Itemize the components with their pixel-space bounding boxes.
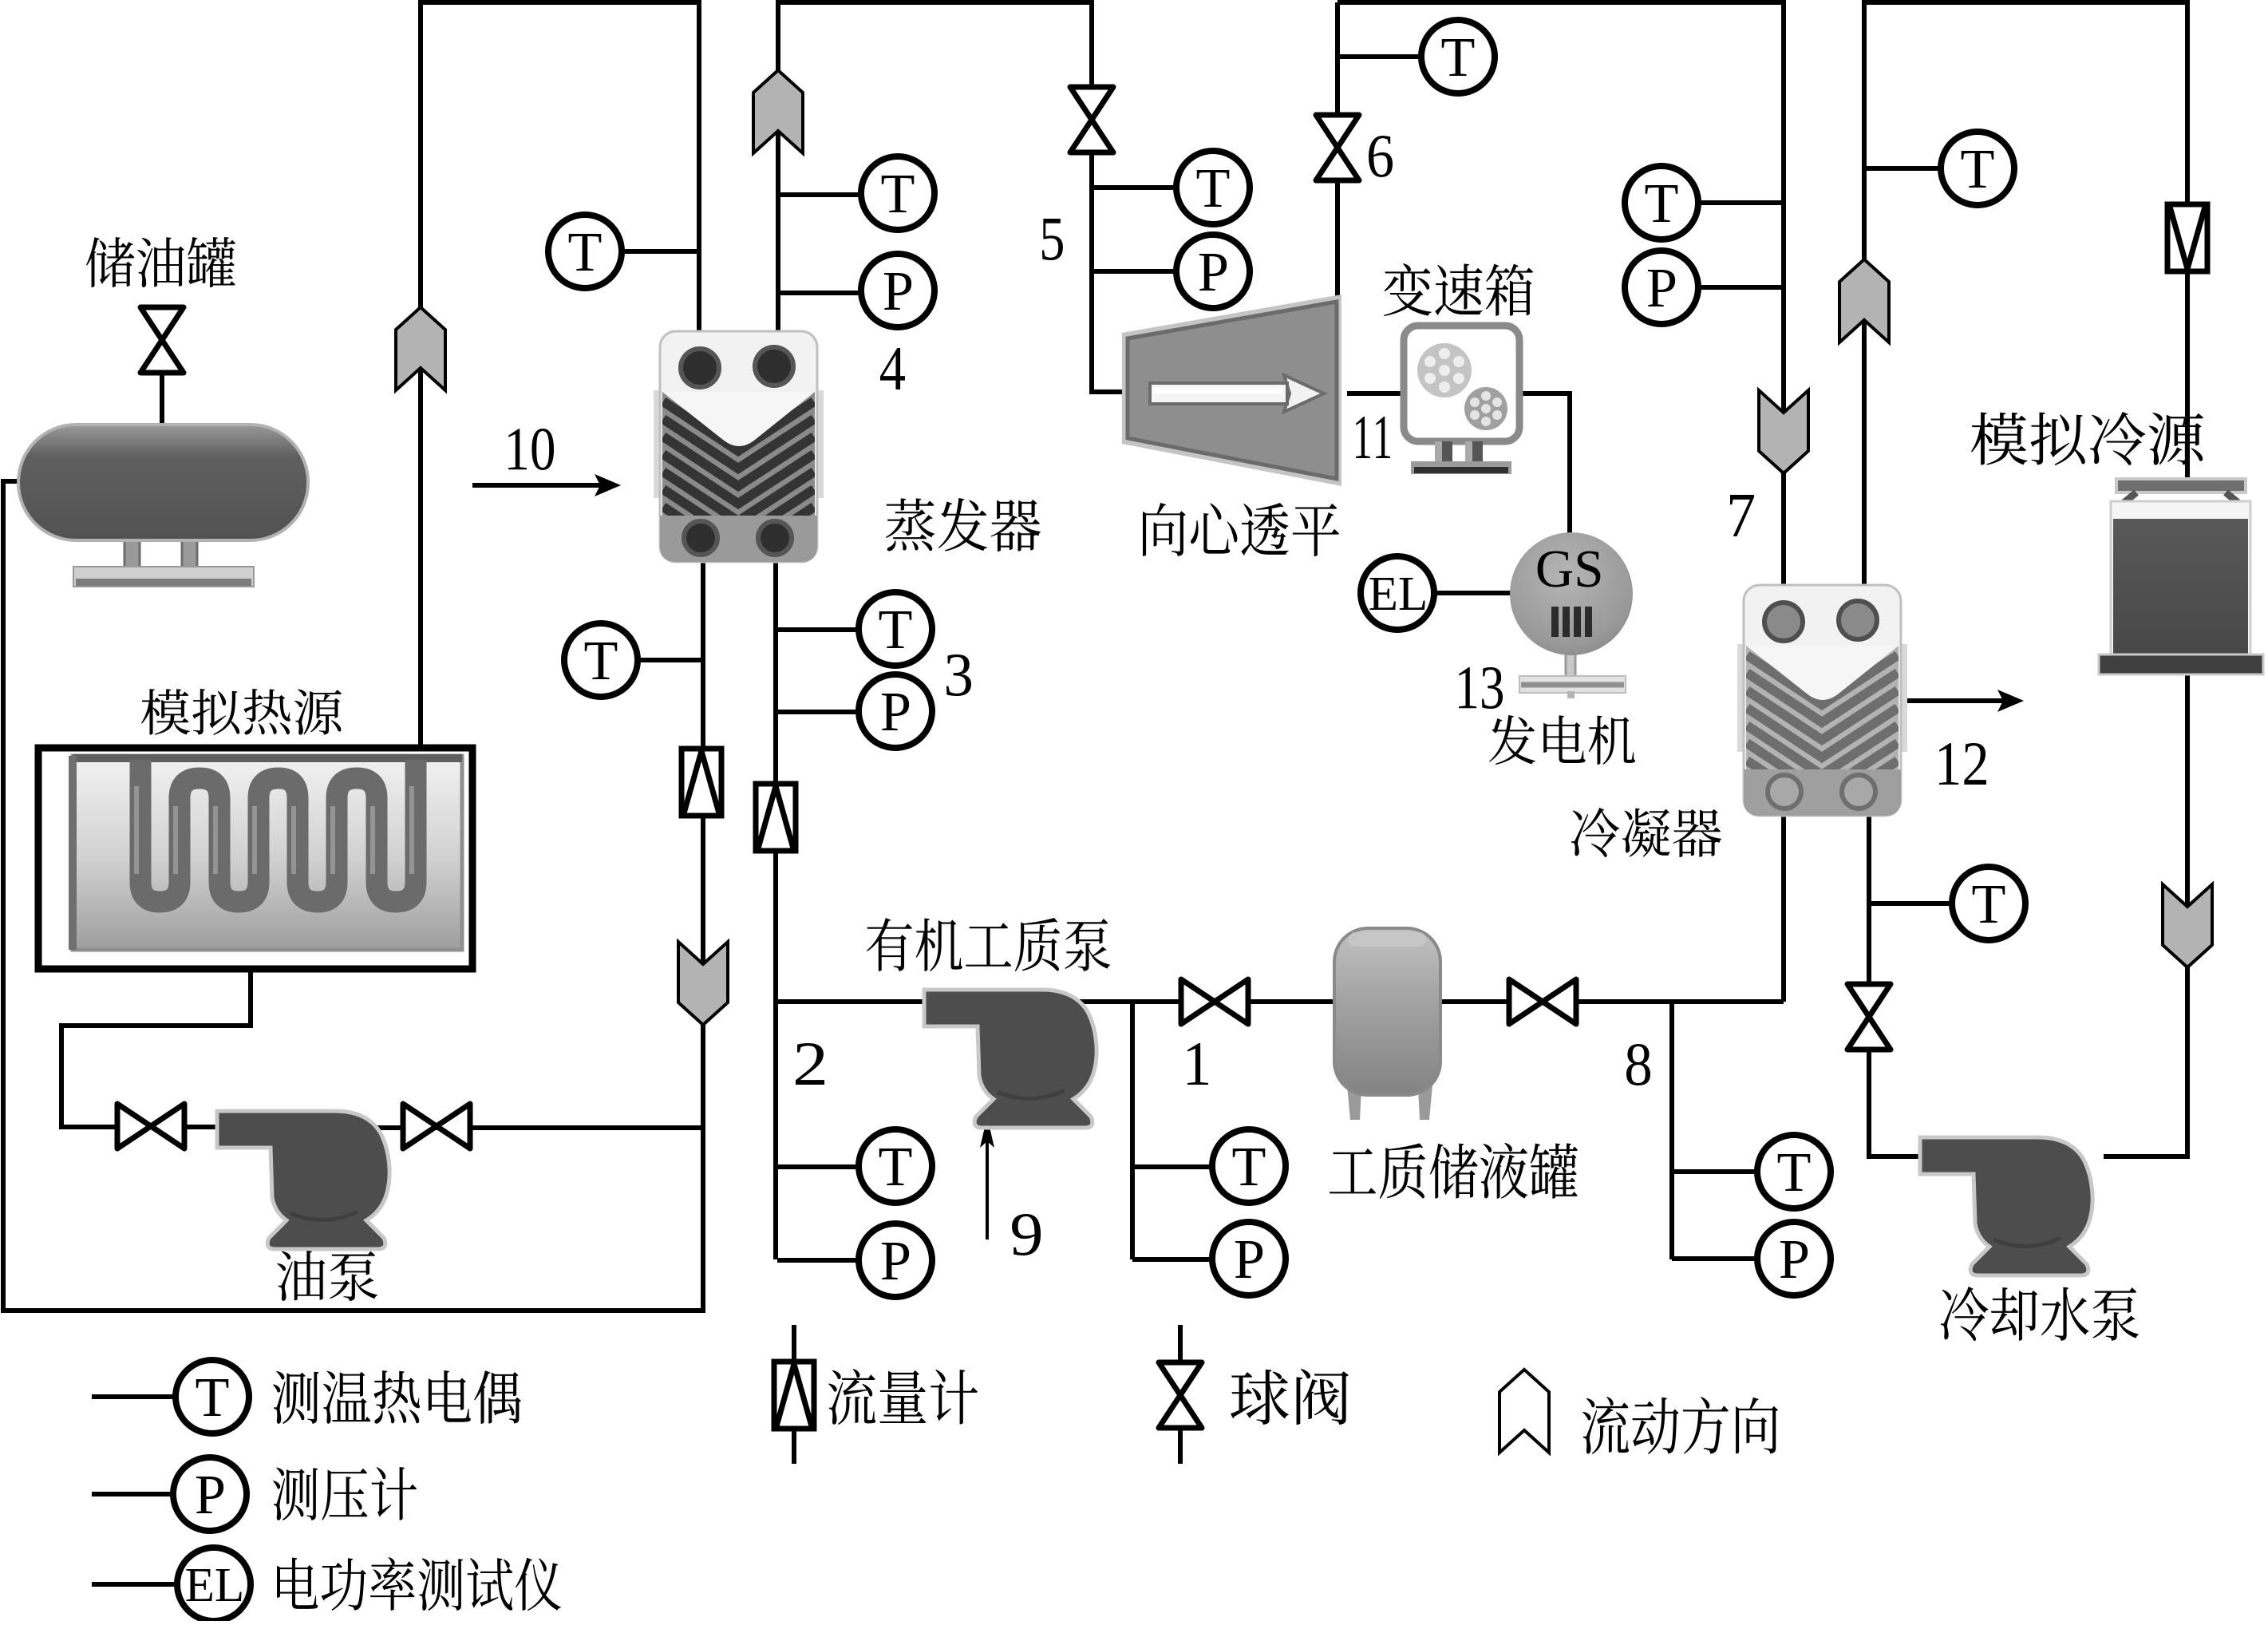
- thermocouple oil supply: [548, 215, 622, 288]
- wire legend EL: [92, 1582, 177, 1587]
- wire node 1 drop: [1130, 1002, 1135, 1259]
- legend flow meter symbol: [774, 1362, 814, 1429]
- node 11: [1356, 417, 1390, 458]
- label condenser: [1571, 808, 1721, 857]
- thermocouple cooling water out: [1941, 132, 2014, 205]
- pump working fluid: [924, 990, 1096, 1128]
- pressure gauge 4: [861, 254, 934, 327]
- pump cooling water: [1920, 1137, 2092, 1275]
- arrow condenser water outlet (12): [1899, 690, 2024, 712]
- node 13: [1459, 667, 1503, 709]
- node 2: [796, 1043, 824, 1085]
- flow meter working fluid line: [756, 784, 796, 851]
- evap: [654, 331, 824, 562]
- wire valve to turbine inlet: [1092, 152, 1129, 392]
- node 9: [1012, 1214, 1041, 1255]
- thermocouple cooling water in: [1952, 867, 2025, 940]
- node 8: [1626, 1044, 1650, 1085]
- working fluid reservoir tank: [1334, 928, 1440, 1120]
- wire branch to P1: [1132, 1257, 1211, 1262]
- flow arrow oil supply up: [396, 307, 445, 390]
- wire branch to T1: [1132, 1164, 1211, 1169]
- label legend ball valve: [1231, 1369, 1349, 1425]
- flow meter oil line: [682, 749, 721, 816]
- valve oil pump inlet: [117, 1104, 184, 1149]
- valve turbine bypass top: [1070, 87, 1113, 152]
- valve condenser to reservoir: [1509, 979, 1576, 1024]
- label gearbox: [1384, 263, 1533, 316]
- label legend thermocouple: [273, 1370, 521, 1424]
- cond: [1737, 585, 1907, 816]
- arrow pump input (9): [980, 1117, 994, 1240]
- node 4: [880, 348, 905, 389]
- label legend flow meter: [828, 1369, 978, 1425]
- valve oil tank vent: [140, 307, 184, 373]
- thermocouple 5: [1176, 151, 1250, 224]
- arrow label 10 flow direction: [472, 474, 621, 496]
- pressure gauge 2: [859, 1224, 932, 1297]
- label working fluid reservoir: [1330, 1143, 1578, 1199]
- wire branch to T6: [1337, 54, 1421, 59]
- wire branch to P2: [777, 1258, 858, 1263]
- flow arrow cold source down: [2163, 884, 2212, 967]
- legend pressure gauge symbol: [173, 1457, 247, 1531]
- wire flowmeter to cold tank: [2185, 268, 2190, 482]
- label radial turbine: [1143, 503, 1339, 556]
- node 6: [1369, 136, 1393, 177]
- wire node 8 drop: [1669, 1002, 1674, 1259]
- valve oil pump outlet: [403, 1104, 470, 1149]
- wire main line node2 to working fluid pump: [776, 999, 927, 1004]
- label oil storage tank: [86, 237, 235, 287]
- wire valve 6 to turbine top: [1335, 180, 1340, 302]
- wire legend T: [92, 1394, 176, 1399]
- wire branch to P8: [1672, 1256, 1756, 1261]
- wire cold tank bottom to cooling pump right: [2104, 674, 2187, 1156]
- wire condenser water out up over to cold source: [1864, 2, 2187, 585]
- label legend flow direction: [1582, 1397, 1778, 1454]
- wire legend flowmeter stem: [792, 1325, 796, 1464]
- node 7: [1730, 495, 1754, 536]
- wire EL to generator: [1434, 591, 1514, 595]
- wire branch to T12: [1869, 901, 1952, 906]
- wire branch to T4: [778, 192, 860, 197]
- simulated heat source box: [38, 748, 472, 969]
- wire branch to T2: [777, 1164, 858, 1169]
- wire branch to P3: [776, 710, 858, 714]
- thermocouple oil return: [564, 623, 638, 697]
- wire heater bottom to oil pump valve: [61, 969, 251, 1127]
- label legend pressure gauge: [273, 1467, 417, 1520]
- thermocouple 4: [861, 156, 934, 230]
- node 10: [508, 429, 554, 470]
- node 3: [946, 654, 971, 696]
- wire branch to T3: [776, 627, 858, 632]
- wire branch to T7: [1699, 200, 1784, 205]
- wire evaporator right pipe down to node 2: [773, 559, 778, 1259]
- wire oil return: evaporator bottom-left to bottom line to oil tank: [3, 481, 703, 1311]
- thermocouple 3: [859, 592, 932, 666]
- wire oil valve to oil pump: [182, 1125, 219, 1129]
- wire legend ball valve stem: [1178, 1325, 1183, 1464]
- node 12: [1939, 743, 1986, 785]
- label cooling water pump: [1941, 1287, 2139, 1341]
- thermocouple 2: [859, 1129, 932, 1203]
- flow arrow cooling water up: [1839, 259, 1889, 342]
- label simulated heat source: [141, 689, 342, 735]
- wire evaporator outlet to valve top: [778, 2, 1092, 335]
- flow arrow evaporator outlet up: [753, 70, 803, 153]
- radial turbine: [1122, 295, 1341, 486]
- pressure gauge 7: [1625, 251, 1698, 324]
- wire branch to T oil return: [638, 658, 703, 662]
- legend flow direction symbol: [1499, 1370, 1549, 1453]
- pump oil: [217, 1111, 389, 1249]
- pressure gauge 1: [1212, 1222, 1286, 1295]
- node 1: [1187, 1043, 1208, 1085]
- wire branch to T8: [1672, 1169, 1756, 1174]
- valve cooling pump suction: [1847, 984, 1891, 1050]
- node 5: [1042, 219, 1063, 260]
- pressure gauge 8: [1757, 1222, 1831, 1295]
- wire valve to cooling pump left: [1869, 1045, 1925, 1156]
- flow arrow oil return down: [678, 942, 728, 1025]
- flow meter cooling water: [2167, 204, 2207, 271]
- valve 6 turbine outlet: [1316, 115, 1359, 180]
- thermocouple turbine outlet: [1421, 20, 1495, 93]
- flow arrow condenser inlet down: [1759, 390, 1808, 473]
- thermocouple 7: [1625, 166, 1698, 239]
- power meter EL: [1361, 556, 1434, 630]
- wire oil pump to return pipe tee: [367, 1125, 703, 1130]
- simulated cold source tank: [2099, 479, 2263, 674]
- thermocouple 1: [1212, 1129, 1286, 1203]
- wire top line to condenser inlet: [1337, 2, 1784, 585]
- label generator: [1489, 715, 1635, 765]
- generator GS: [1510, 532, 1633, 698]
- wire condenser bottom-left downcomer: [1781, 816, 1786, 1002]
- thermocouple 8: [1757, 1135, 1831, 1208]
- legend thermocouple symbol: [176, 1360, 249, 1433]
- pressure gauge 5: [1176, 235, 1250, 308]
- wire oil tank vent stub: [160, 372, 164, 427]
- wire branch to P4: [778, 291, 860, 295]
- wire branch to T oil supply: [622, 249, 699, 254]
- wire turbine to gearbox: [1347, 391, 1406, 396]
- label legend power meter: [277, 1557, 561, 1611]
- legend power meter symbol: [177, 1548, 251, 1621]
- wire turbine outlet riser upper: [1335, 2, 1340, 116]
- wire condenser bottom-right to valve: [1867, 816, 1871, 989]
- wire branch to P5: [1092, 269, 1175, 274]
- oil storage tank: [18, 425, 308, 587]
- label simulated cold source: [1971, 412, 2203, 465]
- legend ball valve symbol: [1159, 1362, 1202, 1428]
- wire working fluid pump to condenser downcomer: [1079, 999, 1784, 1004]
- wire oil supply: heater top to evaporator top-left: [421, 2, 699, 746]
- wire branch to P7: [1699, 285, 1784, 290]
- label organic working fluid pump: [867, 918, 1110, 971]
- wire branch to T mid: [1864, 166, 1941, 171]
- label evaporator: [886, 498, 1041, 552]
- gearbox: [1404, 326, 1519, 474]
- wire gearbox to generator: [1518, 393, 1570, 536]
- label oil pump: [277, 1251, 377, 1301]
- valve 1 pump discharge: [1181, 979, 1248, 1024]
- wire branch to T5: [1092, 185, 1175, 190]
- wire legend P: [92, 1492, 173, 1497]
- pressure gauge 3: [859, 674, 932, 748]
